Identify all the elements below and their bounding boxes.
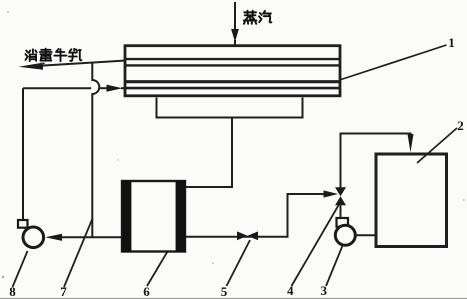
svg-text:5: 5 — [221, 284, 228, 299]
svg-text:3: 3 — [321, 283, 328, 298]
svg-text:6: 6 — [143, 284, 150, 299]
svg-text:7: 7 — [60, 284, 67, 299]
svg-text:1: 1 — [448, 35, 455, 50]
svg-text:4: 4 — [287, 283, 294, 298]
svg-text:8: 8 — [9, 284, 16, 299]
svg-text:2: 2 — [457, 118, 464, 133]
